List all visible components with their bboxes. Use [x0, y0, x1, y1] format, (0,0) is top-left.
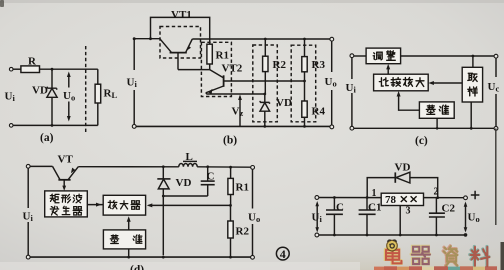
junction dot sample bottom	[470, 127, 473, 130]
text 基准	[426, 105, 448, 114]
input terminal top	[9, 67, 13, 71]
terminal out top	[464, 196, 468, 200]
box 基准	[103, 230, 145, 249]
junction dots bottom rail	[263, 125, 266, 128]
sample bottom lead	[470, 102, 472, 128]
text 矩形波 / 发生器	[50, 194, 81, 203]
circled number 4	[276, 247, 289, 260]
svg-text:(d): (d)	[130, 264, 144, 270]
left rail Ui	[133, 39, 135, 127]
left rail	[351, 57, 353, 126]
logo horns	[388, 240, 397, 242]
wire top a2	[40, 68, 98, 70]
top wire VT to L	[78, 166, 179, 168]
dark scan edge bottom-right	[501, 242, 504, 270]
dashed box R2 VD	[253, 45, 277, 122]
terminal left bottom	[350, 126, 354, 130]
VT emitter arrow	[71, 168, 75, 174]
capacitor C	[207, 167, 209, 181]
load resistor RL	[97, 69, 99, 84]
arrowhead into 比较放大 bottom	[397, 91, 401, 97]
svg-text:Uo: Uo	[468, 212, 480, 225]
regulator box 78xx	[381, 193, 423, 205]
junction dot VD top	[162, 165, 165, 168]
VT2 base sampling wire	[224, 80, 305, 82]
svg-text:R4: R4	[312, 106, 326, 118]
char 资	[443, 246, 457, 266]
dashed separation line	[85, 46, 87, 134]
transistor VT1	[160, 39, 193, 53]
junction dot VD-C wire	[162, 195, 165, 198]
stripe band bottom	[374, 266, 497, 270]
dashed box VT1	[160, 27, 201, 59]
sample top lead	[472, 56, 474, 67]
svg-text:R1: R1	[236, 182, 249, 194]
plus sign	[471, 191, 480, 199]
terminal right top	[251, 166, 255, 170]
resistor R2	[230, 205, 232, 221]
VT1 emitter arrow	[187, 46, 191, 51]
feedback wire	[149, 204, 231, 206]
Uo annotation arrow	[465, 204, 467, 231]
junction dot feedback	[229, 204, 232, 207]
VT base arrow into box	[62, 186, 66, 191]
svg-text:C: C	[336, 202, 344, 214]
arrow amp to regulator	[387, 67, 389, 75]
wire top a	[13, 68, 21, 70]
arrow sample to amp	[431, 82, 462, 84]
capacitor C2	[435, 198, 437, 214]
bridge wire over VT1	[151, 17, 210, 44]
svg-text:C: C	[207, 171, 215, 183]
text 调整	[373, 51, 395, 60]
arrowhead into 放大器 left	[96, 203, 102, 207]
svg-text:Ui: Ui	[312, 212, 323, 225]
terminal right bottom	[251, 255, 255, 259]
wire VD to bottom	[51, 97, 53, 125]
Vz arrowhead	[238, 95, 242, 101]
junction dots bottom rail	[333, 234, 336, 237]
junction dots top rail	[333, 196, 336, 199]
box 比较放大	[374, 74, 429, 91]
svg-text:Uo: Uo	[325, 76, 337, 89]
arrowhead reference up	[127, 216, 131, 222]
svg-text:L: L	[186, 151, 193, 163]
junction dot sample top	[472, 55, 475, 58]
svg-text:Uo: Uo	[248, 212, 260, 225]
svg-text:Ui: Ui	[346, 82, 357, 95]
terminal out bottom dot	[464, 233, 468, 237]
wire VD branch	[51, 69, 53, 88]
corner smudge	[0, 0, 4, 7]
Uo annotation arrow	[68, 75, 70, 119]
L underline	[183, 160, 197, 162]
terminal left top	[350, 54, 354, 58]
dashed box R1 VT2	[201, 42, 231, 96]
junction dot sampling	[303, 80, 306, 83]
junction dots bottom rail	[127, 256, 130, 259]
resistor R1	[207, 44, 212, 64]
svg-text:(c): (c)	[415, 135, 428, 147]
svg-text:RL: RL	[104, 88, 118, 101]
svg-text:C1: C1	[368, 202, 381, 214]
svg-text:Vz: Vz	[232, 106, 244, 119]
VT2 emitter arrow	[208, 89, 213, 94]
junction dot R3 top	[303, 38, 306, 41]
resistor R3	[304, 39, 306, 57]
terminal right top	[494, 54, 498, 58]
wire C bottom to VD	[163, 195, 207, 197]
wire bottom a	[13, 124, 98, 126]
input terminal bottom	[9, 124, 13, 128]
svg-text:C2: C2	[442, 203, 456, 215]
Vz annotation arrow	[239, 97, 241, 127]
svg-text:Ui: Ui	[5, 91, 16, 104]
svg-text:78: 78	[385, 194, 397, 206]
top wire L to terminal	[197, 166, 250, 168]
arrowhead into 调整	[386, 64, 390, 70]
resistor R1	[230, 167, 232, 178]
bottom rail	[134, 125, 332, 127]
resistor R4	[302, 101, 307, 117]
junction dot R2 top	[264, 38, 267, 41]
pin2 rail	[424, 197, 464, 199]
char 料	[470, 246, 490, 265]
top rail pin1	[319, 197, 381, 199]
zener diode VD	[47, 87, 56, 90]
diode VD branch	[162, 167, 164, 179]
Ui annotation arrow	[316, 203, 318, 231]
svg-text:Ui: Ui	[23, 211, 34, 224]
capacitor C	[333, 198, 335, 211]
svg-text:(b): (b)	[223, 135, 237, 147]
box 取样	[462, 67, 482, 102]
VD bypass left	[367, 178, 395, 198]
reference lead arrow	[128, 218, 130, 230]
corner dot top-left	[133, 37, 136, 40]
svg-text:R: R	[28, 56, 37, 68]
reference bottom lead	[436, 118, 438, 128]
scan artifact edge line	[495, 129, 497, 226]
ox-head logo circle	[387, 240, 398, 251]
box 放大器	[103, 195, 145, 215]
junction dot reference bottom	[436, 127, 439, 130]
zener diode VD	[264, 94, 266, 102]
char 器	[411, 246, 430, 264]
junction dot zener top	[263, 93, 266, 96]
terminal right bottom open	[330, 125, 334, 129]
terminal in top	[315, 196, 319, 200]
Uo arrowheads	[464, 202, 468, 233]
svg-text:2: 2	[434, 187, 439, 198]
terminal left bottom	[26, 255, 30, 259]
svg-text:VD: VD	[395, 162, 411, 174]
terminal in bottom	[315, 233, 319, 237]
svg-text:Uc: Uc	[488, 81, 500, 94]
svg-text:VT: VT	[58, 154, 74, 166]
right rail Uo	[331, 39, 333, 126]
terminal right top open	[330, 37, 334, 41]
text 放大器	[108, 201, 140, 210]
resistor R2	[264, 39, 266, 56]
terminal right bottom	[494, 126, 498, 130]
VT2 emitter wire to zener	[206, 93, 264, 95]
junction node VD top	[51, 68, 54, 71]
arrow reference to amp	[399, 94, 420, 111]
arrowhead into 比较放大 right	[428, 81, 434, 85]
char 电	[385, 246, 401, 263]
top wire to VT	[28, 165, 52, 167]
svg-text:VD: VD	[32, 85, 48, 97]
top wire	[352, 55, 366, 57]
svg-text:Uo: Uo	[63, 90, 75, 103]
Ui arrowheads	[315, 201, 319, 233]
terminal bottom-left open	[132, 125, 136, 129]
svg-text:4: 4	[280, 247, 286, 261]
svg-text:(a): (a)	[40, 132, 54, 144]
text 取样 vertical	[468, 73, 477, 96]
svg-text:R2: R2	[236, 226, 250, 238]
logo face mark	[390, 244, 394, 248]
Uo arrowheads	[67, 72, 71, 122]
junction dot R1 top	[229, 166, 232, 169]
svg-text:R3: R3	[312, 59, 326, 71]
transistor VT	[53, 166, 79, 179]
svg-text:Ui: Ui	[127, 77, 138, 90]
dashed box R3 R4	[291, 45, 316, 122]
text 比较放大	[379, 78, 424, 87]
svg-text:3: 3	[406, 206, 411, 217]
svg-text:VT1: VT1	[171, 9, 192, 21]
svg-text:1: 1	[372, 188, 377, 199]
pin3 lead	[399, 206, 401, 236]
text 基 准	[110, 235, 142, 244]
base wire VT1-R1	[178, 69, 210, 71]
box 调整	[366, 48, 401, 64]
VD bypass right	[410, 178, 438, 198]
box 基准	[419, 102, 454, 118]
diode VD	[394, 172, 396, 182]
left rail	[27, 168, 29, 255]
inductor L	[179, 164, 197, 167]
wire generator to amp	[87, 204, 103, 206]
svg-text:VD: VD	[276, 97, 292, 109]
svg-text:R2: R2	[273, 59, 287, 71]
top wire to VT1	[134, 38, 160, 40]
terminal left top	[26, 164, 30, 168]
bottom rail	[28, 256, 252, 258]
junction node VD bottom	[51, 124, 54, 127]
svg-text:VD: VD	[176, 177, 192, 189]
right rail	[252, 169, 254, 256]
right rail	[495, 58, 497, 127]
svg-text:R1: R1	[216, 50, 229, 62]
svg-text:VT2: VT2	[222, 63, 243, 75]
junction dot bridge	[149, 37, 152, 40]
capacitor C1	[366, 198, 368, 211]
box 矩形波发生器	[45, 191, 88, 217]
arrowhead feedback into 放大器	[147, 203, 153, 207]
top output wire	[192, 38, 331, 40]
junction dot C top	[206, 165, 209, 168]
resistor R	[21, 66, 40, 73]
bottom wire	[352, 127, 496, 129]
transistor VT2	[210, 70, 224, 78]
reference bottom lead	[128, 249, 130, 257]
bottom rail	[317, 234, 466, 236]
